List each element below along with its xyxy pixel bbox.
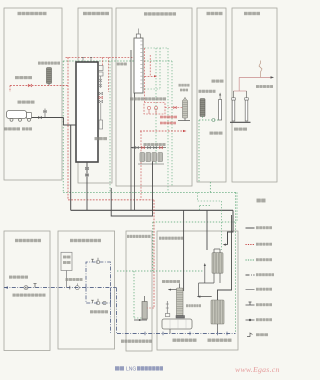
svg-text:LNG: LNG xyxy=(126,367,136,373)
svg-text:www.Egas.cn: www.Egas.cn xyxy=(235,365,280,374)
